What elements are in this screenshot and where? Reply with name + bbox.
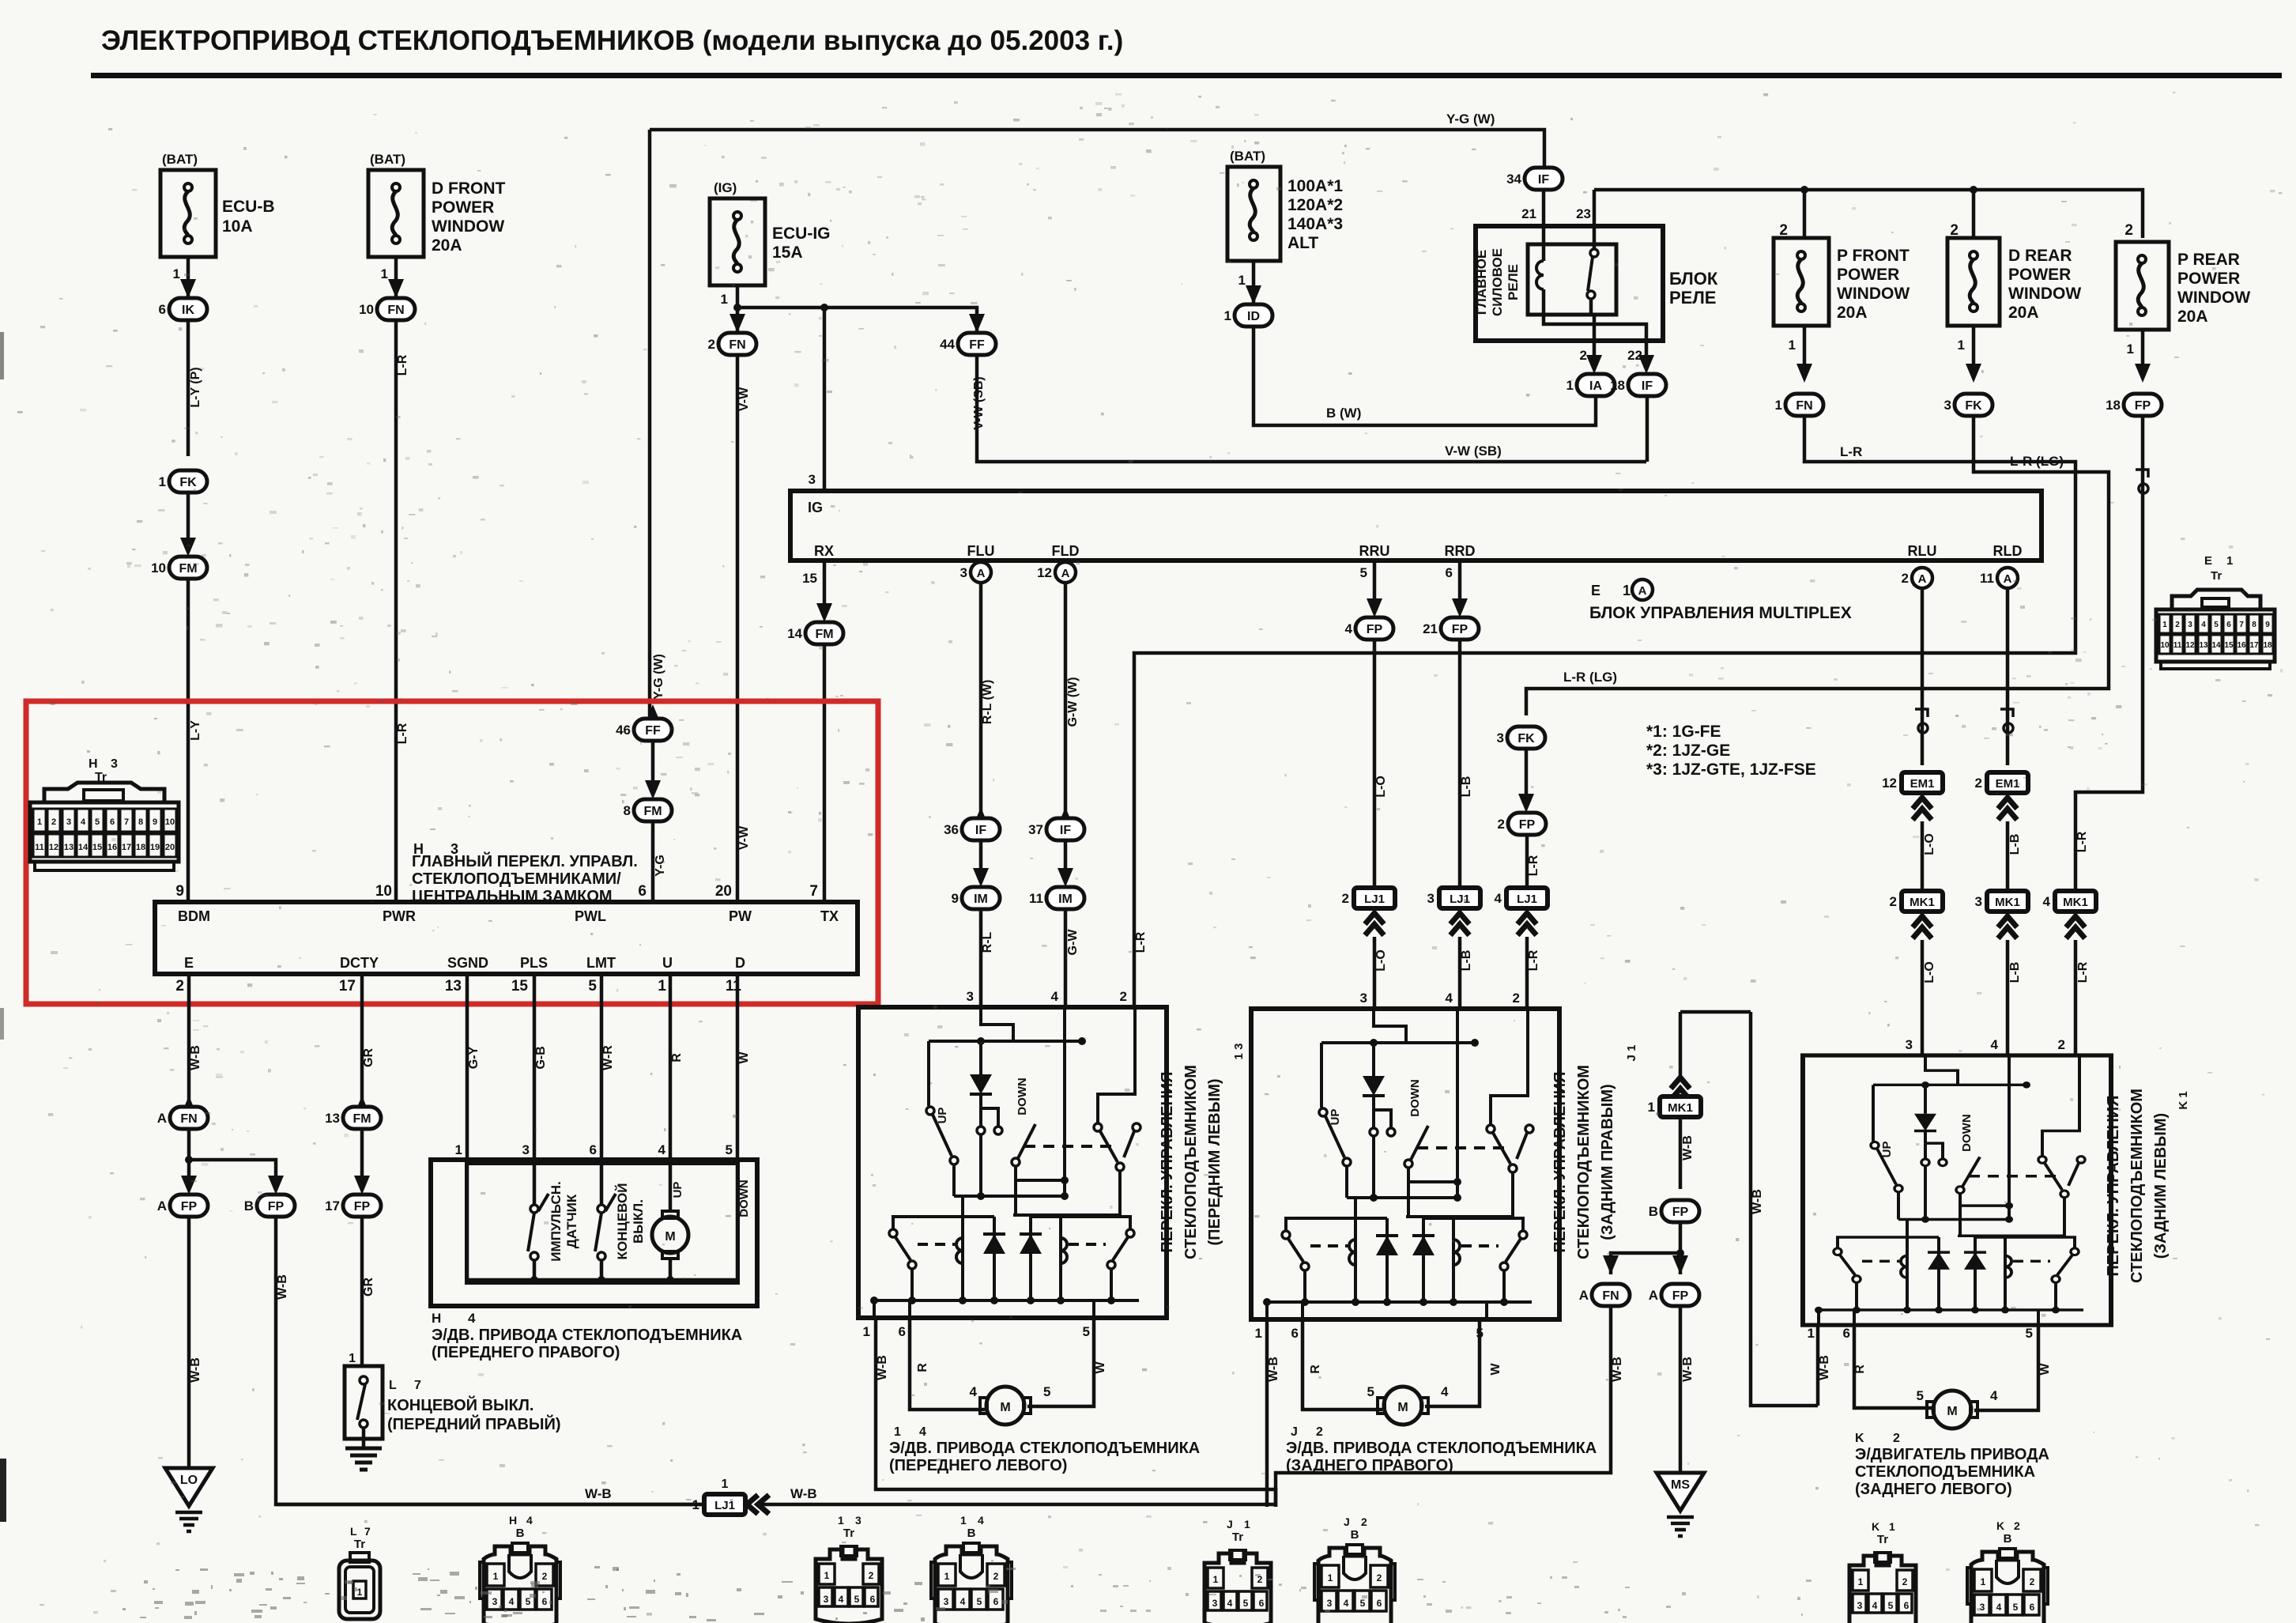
svg-text:1: 1 xyxy=(658,978,666,995)
wire IG to multiplex pin 3 xyxy=(823,308,827,491)
svg-text:*2: 1JZ-GE: *2: 1JZ-GE xyxy=(1646,742,1730,760)
wire relay contact pin 23 xyxy=(1593,190,1597,250)
svg-text:PLS: PLS xyxy=(520,955,548,971)
fuse D FRONT POWER WINDOW 20A xyxy=(368,170,424,257)
svg-text:15: 15 xyxy=(92,843,102,852)
wire W-B to ground LO xyxy=(187,1217,191,1468)
junction A FN right xyxy=(1579,1284,1630,1306)
svg-text:10: 10 xyxy=(359,302,374,317)
svg-text:W-B: W-B xyxy=(1818,1355,1831,1380)
svg-text:3: 3 xyxy=(1857,1600,1863,1611)
svg-text:5: 5 xyxy=(1360,1598,1366,1609)
svg-text:12: 12 xyxy=(49,843,58,852)
svg-text:14: 14 xyxy=(787,626,802,641)
svg-text:A: A xyxy=(157,1111,167,1126)
svg-text:4: 4 xyxy=(960,1596,966,1607)
svg-text:12: 12 xyxy=(1037,565,1052,580)
svg-text:СТЕКЛОПОДЪЕМНИКОМ: СТЕКЛОПОДЪЕМНИКОМ xyxy=(1182,1065,1200,1259)
svg-text:W-B: W-B xyxy=(276,1274,289,1300)
svg-text:UP: UP xyxy=(1329,1109,1342,1126)
arrow into 10 FN xyxy=(388,279,404,298)
wire W from pin 11 xyxy=(736,974,740,1160)
svg-text:1: 1 xyxy=(2226,554,2233,568)
svg-text:6: 6 xyxy=(870,1594,876,1605)
connector icon J 2 B xyxy=(1314,1545,1395,1623)
wire B rail to P fuses xyxy=(1594,190,2143,238)
svg-text:DOWN: DOWN xyxy=(1960,1114,1974,1152)
wire ECU-IG fuse pin 1 xyxy=(736,285,740,333)
svg-text:21: 21 xyxy=(1423,621,1438,636)
arrow into 1 FK xyxy=(180,470,196,489)
pin FLU circle A xyxy=(960,562,991,583)
wire limit switch to bus xyxy=(600,1260,604,1280)
connector 3 MK1 xyxy=(1975,891,2028,912)
svg-text:5: 5 xyxy=(2214,621,2219,629)
svg-text:3: 3 xyxy=(1360,991,1367,1006)
svg-text:L-R: L-R xyxy=(1527,855,1540,876)
svg-text:14: 14 xyxy=(78,843,89,852)
svg-text:G-W (W): G-W (W) xyxy=(1066,677,1080,727)
svg-text:H: H xyxy=(89,757,98,771)
svg-text:IK: IK xyxy=(182,304,194,317)
wire P REAR fuse pin 1 xyxy=(2141,330,2145,372)
pulse sensor switch xyxy=(530,1205,538,1213)
svg-text:M: M xyxy=(1397,1401,1408,1414)
svg-text:1: 1 xyxy=(1238,273,1246,288)
svg-text:2: 2 xyxy=(1342,891,1349,906)
svg-text:R: R xyxy=(670,1053,684,1062)
svg-text:9: 9 xyxy=(2265,621,2270,629)
svg-text:WINDOW: WINDOW xyxy=(2008,285,2081,303)
svg-text:(ПЕРЕДНЕГО ЛЕВОГО): (ПЕРЕДНЕГО ЛЕВОГО) xyxy=(889,1457,1067,1474)
svg-text:17: 17 xyxy=(122,843,131,852)
wire below B FP xyxy=(1679,1222,1683,1274)
svg-text:IM: IM xyxy=(974,893,988,906)
svg-text:15: 15 xyxy=(511,978,529,995)
svg-text:RX: RX xyxy=(814,543,834,559)
wire L-Y to BDM pin 9 xyxy=(187,579,190,902)
junction 13 FM xyxy=(325,1107,381,1129)
wire L-R from P FRONT to FL switch pin 2 xyxy=(1134,416,2075,1009)
svg-text:TX: TX xyxy=(820,908,839,924)
arrow into 2 FP xyxy=(1518,794,1534,813)
svg-text:7: 7 xyxy=(364,1525,371,1538)
svg-text:GR: GR xyxy=(362,1278,375,1297)
wire RRU pin 5 xyxy=(1373,561,1377,606)
fusible link ALT xyxy=(1227,167,1280,261)
svg-text:2: 2 xyxy=(1975,776,1982,791)
svg-text:A: A xyxy=(1918,572,1927,586)
svg-text:FK: FK xyxy=(179,476,197,489)
wire RX pin 15 xyxy=(823,561,827,605)
svg-text:(BAT): (BAT) xyxy=(162,152,198,167)
svg-text:4: 4 xyxy=(1446,991,1453,1006)
connector icon 1 4 B xyxy=(931,1543,1012,1623)
svg-text:1: 1 xyxy=(838,1514,844,1527)
svg-text:21: 21 xyxy=(1521,206,1536,221)
junction 18 FP xyxy=(2106,394,2162,416)
wire L-B to RR switch pin 4 xyxy=(1458,937,1462,1009)
wire between 37 IF and 11 IM xyxy=(1064,840,1068,876)
wire L-R to 4 LJ1 xyxy=(1525,835,1529,889)
inner bottom bus xyxy=(467,1278,737,1282)
svg-text:Э/ДВ. ПРИВОДА СТЕКЛОПОДЪЕМНИКА: Э/ДВ. ПРИВОДА СТЕКЛОПОДЪЕМНИКА xyxy=(889,1440,1200,1457)
svg-text:J: J xyxy=(1291,1425,1298,1439)
wire below A FN xyxy=(187,1129,191,1183)
arrow into 13 FM xyxy=(354,1096,370,1115)
connector 1 MK1 xyxy=(1648,1096,1701,1117)
svg-text:FF: FF xyxy=(645,724,661,738)
svg-text:L: L xyxy=(389,1379,397,1392)
wire W-B from pin 2 xyxy=(187,974,191,1107)
svg-text:1: 1 xyxy=(159,474,166,489)
limit switch inside motor box xyxy=(598,1205,605,1213)
svg-text:ECU-IG: ECU-IG xyxy=(772,225,831,243)
svg-text:5: 5 xyxy=(95,817,100,827)
svg-text:4: 4 xyxy=(1344,1598,1349,1609)
svg-text:MK1: MK1 xyxy=(1995,896,2020,909)
svg-text:1: 1 xyxy=(1213,1574,1219,1585)
junction 1 ID xyxy=(1224,304,1272,326)
svg-text:ЭЛЕКТРОПРИВОД СТЕКЛОПОДЪЕМНИКО: ЭЛЕКТРОПРИВОД СТЕКЛОПОДЪЕМНИКОВ (модели … xyxy=(101,25,1123,56)
title rule xyxy=(91,73,2282,78)
svg-text:10: 10 xyxy=(151,561,166,576)
svg-text:L-O: L-O xyxy=(1923,833,1936,855)
svg-text:5: 5 xyxy=(726,1142,733,1157)
svg-text:КОНЦЕВОЙ: КОНЦЕВОЙ xyxy=(615,1183,630,1260)
svg-text:L-B: L-B xyxy=(2008,962,2022,983)
svg-text:1: 1 xyxy=(493,1571,499,1582)
svg-text:ИМПУЛЬСН.: ИМПУЛЬСН. xyxy=(549,1181,564,1262)
svg-text:2: 2 xyxy=(1361,1515,1367,1528)
ground LO xyxy=(165,1468,213,1531)
svg-text:W: W xyxy=(1489,1363,1502,1376)
junction A FN left xyxy=(157,1107,208,1129)
wire pin 3 inside xyxy=(533,1164,537,1205)
arrow into 3 FK xyxy=(1966,364,1981,383)
svg-text:1: 1 xyxy=(721,292,728,307)
svg-text:FN: FN xyxy=(729,338,745,352)
svg-text:L-O: L-O xyxy=(1923,961,1936,983)
svg-text:ПЕРЕКЛ. УПРАВЛЕНИЯ: ПЕРЕКЛ. УПРАВЛЕНИЯ xyxy=(1159,1071,1176,1252)
svg-text:A: A xyxy=(977,567,986,580)
svg-text:6: 6 xyxy=(993,1596,999,1607)
svg-text:Y-G (W): Y-G (W) xyxy=(652,654,665,700)
svg-text:W: W xyxy=(2038,1363,2052,1376)
arrow into 2 FN xyxy=(730,314,745,333)
svg-text:ГЛАВНЫЙ ПЕРЕКЛ. УПРАВЛ.: ГЛАВНЫЙ ПЕРЕКЛ. УПРАВЛ. xyxy=(412,851,638,870)
svg-text:БЛОК УПРАВЛЕНИЯ MULTIPLEX: БЛОК УПРАВЛЕНИЯ MULTIPLEX xyxy=(1589,604,1852,622)
junction 4 FP xyxy=(1345,617,1393,640)
wire L-B to 3 LJ1 xyxy=(1458,640,1462,889)
svg-text:P FRONT: P FRONT xyxy=(1837,247,1910,265)
svg-text:E: E xyxy=(2204,554,2212,568)
wire GR from pin 17 xyxy=(360,974,364,1107)
svg-text:W-B: W-B xyxy=(1681,1135,1695,1161)
svg-text:BDM: BDM xyxy=(178,908,210,924)
svg-text:R-L (W): R-L (W) xyxy=(981,680,994,725)
svg-text:20A: 20A xyxy=(432,236,462,255)
wire D FRONT fuse pin 1 down xyxy=(394,257,398,298)
svg-text:1: 1 xyxy=(1775,398,1782,413)
svg-text:WINDOW: WINDOW xyxy=(2177,289,2250,307)
svg-text:1: 1 xyxy=(1255,1326,1262,1341)
arrow into 3 FK xyxy=(1518,727,1534,745)
svg-text:5: 5 xyxy=(1043,1384,1050,1399)
wire L-R to K switch pin 2 xyxy=(2074,940,2078,1055)
svg-text:U: U xyxy=(662,955,673,971)
svg-text:G-B: G-B xyxy=(534,1046,548,1069)
svg-text:15: 15 xyxy=(802,571,817,586)
pin RLD circle A xyxy=(1980,568,2018,588)
junction 8 FM xyxy=(624,799,672,821)
wire relay output pin 2 xyxy=(1591,299,1594,364)
wire L-O to 2 LJ1 xyxy=(1373,640,1377,889)
svg-text:3: 3 xyxy=(809,472,816,487)
svg-text:3: 3 xyxy=(824,1594,829,1605)
svg-text:1: 1 xyxy=(722,1478,729,1491)
svg-text:FN: FN xyxy=(180,1112,197,1126)
svg-text:Э/ДВ. ПРИВОДА СТЕКЛОПОДЪЕМНИКА: Э/ДВ. ПРИВОДА СТЕКЛОПОДЪЕМНИКА xyxy=(432,1327,742,1344)
svg-text:1: 1 xyxy=(692,1497,699,1512)
svg-text:IF: IF xyxy=(1060,824,1071,837)
branch to B FP xyxy=(189,1160,276,1183)
wire ECU-B fuse pin 1 down xyxy=(187,257,190,298)
svg-text:16: 16 xyxy=(2237,641,2246,650)
motor M front left xyxy=(986,1387,1024,1425)
junction B FP left xyxy=(244,1195,295,1217)
svg-text:MK1: MK1 xyxy=(2063,896,2088,909)
scan edge artifact left xyxy=(0,1459,6,1522)
svg-text:18: 18 xyxy=(136,843,145,852)
arrow into 1 ID xyxy=(1246,285,1261,304)
wire down to 1 MK1 xyxy=(1679,1012,1683,1078)
svg-text:ECU-B: ECU-B xyxy=(222,198,275,216)
svg-text:Tr: Tr xyxy=(2211,569,2222,583)
svg-text:10A: 10A xyxy=(222,217,253,236)
wire pin 4 to motor xyxy=(669,1164,673,1211)
relay switch contact xyxy=(1590,249,1598,257)
svg-text:SGND: SGND xyxy=(447,955,488,971)
motor M rear right xyxy=(1384,1387,1422,1425)
wire between FK and FM xyxy=(187,493,190,538)
svg-text:5: 5 xyxy=(526,1596,531,1607)
svg-text:16: 16 xyxy=(107,843,117,852)
svg-text:(ЗАДНИМ ПРАВЫМ): (ЗАДНИМ ПРАВЫМ) xyxy=(1599,1084,1616,1240)
svg-text:L-R: L-R xyxy=(396,354,409,376)
wire Y-G to PWL pin 6 xyxy=(651,821,655,902)
svg-text:20A: 20A xyxy=(1837,304,1868,322)
svg-text:ALT: ALT xyxy=(1287,234,1318,252)
svg-text:14: 14 xyxy=(2211,641,2221,650)
svg-text:5: 5 xyxy=(1367,1384,1374,1399)
inline break RLD xyxy=(2000,709,2013,733)
wire V-W to PW pin 20 xyxy=(736,355,740,902)
svg-text:4: 4 xyxy=(970,1384,978,1399)
svg-text:(ПЕРЕДНИЙ ПРАВЫЙ): (ПЕРЕДНИЙ ПРАВЫЙ) xyxy=(387,1414,561,1433)
wire W-B to LJ1 xyxy=(276,1217,703,1504)
svg-text:V-W (SB): V-W (SB) xyxy=(972,376,986,430)
svg-text:Tr: Tr xyxy=(1877,1533,1888,1546)
arrow into 17 FP xyxy=(354,1176,370,1195)
junction 2 FP xyxy=(1498,813,1546,835)
connector icon H 4 B xyxy=(480,1543,560,1623)
svg-text:FP: FP xyxy=(354,1200,371,1213)
junction 44 FF xyxy=(940,333,996,355)
svg-text:M: M xyxy=(1947,1405,1957,1418)
connector 2 LJ1 xyxy=(1342,888,1395,908)
svg-text:WINDOW: WINDOW xyxy=(1837,285,1910,303)
svg-text:2: 2 xyxy=(1950,222,1959,239)
connector 2 MK1 xyxy=(1890,891,1943,912)
svg-text:FP: FP xyxy=(1672,1206,1689,1219)
wire L-R (LG) from D REAR to RR column xyxy=(1526,416,2109,715)
wire G-W (W) xyxy=(1064,583,1068,818)
svg-text:СТЕКЛОПОДЪЕМНИКА: СТЕКЛОПОДЪЕМНИКА xyxy=(1855,1463,2035,1481)
wire between 36 IF and 9 IM xyxy=(979,840,983,876)
svg-text:W-B: W-B xyxy=(790,1486,817,1501)
svg-text:ПЕРЕКЛ. УПРАВЛЕНИЯ: ПЕРЕКЛ. УПРАВЛЕНИЯ xyxy=(2105,1095,2122,1276)
svg-text:2: 2 xyxy=(1513,991,1520,1006)
svg-text:FP: FP xyxy=(1672,1289,1689,1303)
junction A FP left xyxy=(157,1195,208,1217)
connector icon H 3 Tr 20-pin xyxy=(30,783,179,870)
svg-text:3: 3 xyxy=(1944,398,1951,413)
arrow into A FN xyxy=(181,1096,197,1115)
svg-text:2: 2 xyxy=(1316,1425,1323,1439)
svg-text:WINDOW: WINDOW xyxy=(432,217,504,236)
svg-text:17: 17 xyxy=(339,978,356,995)
wire W-B from A FN to ground line xyxy=(1276,1306,1611,1507)
wire 18 IF down to V-W SB rail xyxy=(1646,396,1649,462)
wire pulse switch to bus xyxy=(533,1260,537,1280)
svg-text:MK1: MK1 xyxy=(1910,896,1935,909)
front right window motor box H 4 xyxy=(431,1160,757,1306)
svg-text:37: 37 xyxy=(1028,822,1043,837)
svg-text:4: 4 xyxy=(2043,894,2051,909)
junction 1 FN xyxy=(1775,394,1823,416)
svg-text:*1: 1G-FE: *1: 1G-FE xyxy=(1646,723,1721,741)
wire G-Y from pin 13 xyxy=(466,974,469,1160)
wire W K pin5 to motor xyxy=(1974,1325,2038,1410)
svg-text:2: 2 xyxy=(1779,222,1788,239)
arrow into A FN xyxy=(1603,1255,1619,1274)
wire L-O to RR switch pin 3 xyxy=(1373,937,1377,1009)
svg-text:13: 13 xyxy=(64,843,74,852)
svg-text:10: 10 xyxy=(2160,641,2170,650)
wire pin 1 inside xyxy=(466,1164,469,1280)
svg-text:P REAR: P REAR xyxy=(2177,251,2240,269)
svg-text:11: 11 xyxy=(1029,891,1043,906)
svg-text:13: 13 xyxy=(325,1111,340,1126)
svg-text:4: 4 xyxy=(978,1514,984,1527)
svg-text:E: E xyxy=(184,955,194,971)
svg-text:1: 1 xyxy=(863,1324,870,1339)
connector 1 LJ1 inline xyxy=(692,1494,745,1515)
arrow into 4 FP xyxy=(1367,598,1382,617)
svg-text:36: 36 xyxy=(944,822,959,837)
svg-text:FP: FP xyxy=(1519,818,1536,832)
svg-text:12: 12 xyxy=(1882,776,1897,791)
svg-text:6: 6 xyxy=(159,302,166,317)
arrow into 6 FK xyxy=(180,279,196,298)
svg-text:11: 11 xyxy=(35,843,44,852)
svg-text:W-B: W-B xyxy=(1751,1189,1764,1214)
arrow into B FP xyxy=(268,1176,284,1195)
connector 3 LJ1 xyxy=(1427,888,1480,908)
svg-text:PWR: PWR xyxy=(383,908,416,924)
svg-text:E: E xyxy=(1591,583,1600,598)
svg-text:M: M xyxy=(665,1230,675,1244)
svg-text:3: 3 xyxy=(855,1514,861,1527)
arrow into 8 FM xyxy=(645,780,661,799)
svg-text:20: 20 xyxy=(715,883,732,900)
connector icon K 2 B xyxy=(1967,1549,2048,1623)
svg-text:L-R (LG): L-R (LG) xyxy=(2010,454,2064,469)
svg-text:FLD: FLD xyxy=(1052,543,1080,559)
svg-text:5: 5 xyxy=(977,1596,982,1607)
svg-text:18: 18 xyxy=(2106,398,2121,413)
svg-text:6: 6 xyxy=(1259,1598,1265,1609)
svg-text:4: 4 xyxy=(1872,1600,1878,1611)
svg-text:UP: UP xyxy=(936,1108,949,1124)
wire L-R to RR switch pin 2 xyxy=(1525,937,1529,1009)
svg-text:V-W: V-W xyxy=(737,825,751,850)
svg-text:L-Y: L-Y xyxy=(189,720,202,741)
arrow into 21 FP xyxy=(1452,598,1468,617)
svg-text:1: 1 xyxy=(824,1570,830,1581)
wire to ground xyxy=(362,1428,366,1448)
svg-text:PW: PW xyxy=(729,908,752,924)
svg-text:R: R xyxy=(1309,1364,1322,1374)
svg-text:L-R: L-R xyxy=(2075,831,2089,852)
svg-text:18: 18 xyxy=(2263,641,2272,650)
arrow into A FP xyxy=(181,1176,197,1195)
svg-text:B: B xyxy=(2004,1532,2012,1546)
svg-text:4: 4 xyxy=(839,1594,844,1605)
wire motor to bus xyxy=(669,1259,673,1280)
svg-text:DCTY: DCTY xyxy=(340,955,379,971)
svg-text:J: J xyxy=(1344,1515,1350,1528)
svg-text:L-R: L-R xyxy=(1134,931,1148,953)
svg-text:FF: FF xyxy=(969,338,985,352)
motor M rear left xyxy=(1933,1391,1971,1429)
svg-text:V-W (SB): V-W (SB) xyxy=(1445,443,1502,459)
svg-text:PWL: PWL xyxy=(575,908,606,924)
svg-text:G-W: G-W xyxy=(1066,929,1080,956)
wire RLD L-B xyxy=(2006,588,2010,765)
wire W-B long right segment xyxy=(760,1503,1276,1507)
wire L-B to 3 MK1 xyxy=(2006,821,2010,889)
rear right window switch box xyxy=(1251,1009,1559,1319)
wire W-B FL pin1 to ground line xyxy=(876,1318,1276,1507)
wire V-W (SB) to 18 IF xyxy=(977,355,1646,462)
multiplex control unit box xyxy=(790,491,2042,561)
svg-text:6: 6 xyxy=(590,1142,597,1157)
svg-text:6: 6 xyxy=(110,817,115,827)
scan speckle band bottom xyxy=(123,1566,1812,1621)
svg-text:6: 6 xyxy=(1377,1598,1382,1609)
junction 11 IM xyxy=(1029,887,1084,909)
svg-text:1: 1 xyxy=(1789,338,1796,353)
svg-text:1: 1 xyxy=(349,1352,356,1365)
wire relay coil pin 21 xyxy=(1542,190,1546,261)
arrow into A FP xyxy=(1672,1255,1688,1274)
svg-text:34: 34 xyxy=(1506,172,1521,187)
svg-text:2: 2 xyxy=(2030,1576,2035,1587)
svg-text:Tr: Tr xyxy=(354,1538,365,1551)
wire G-B from pin 15 xyxy=(533,974,537,1160)
